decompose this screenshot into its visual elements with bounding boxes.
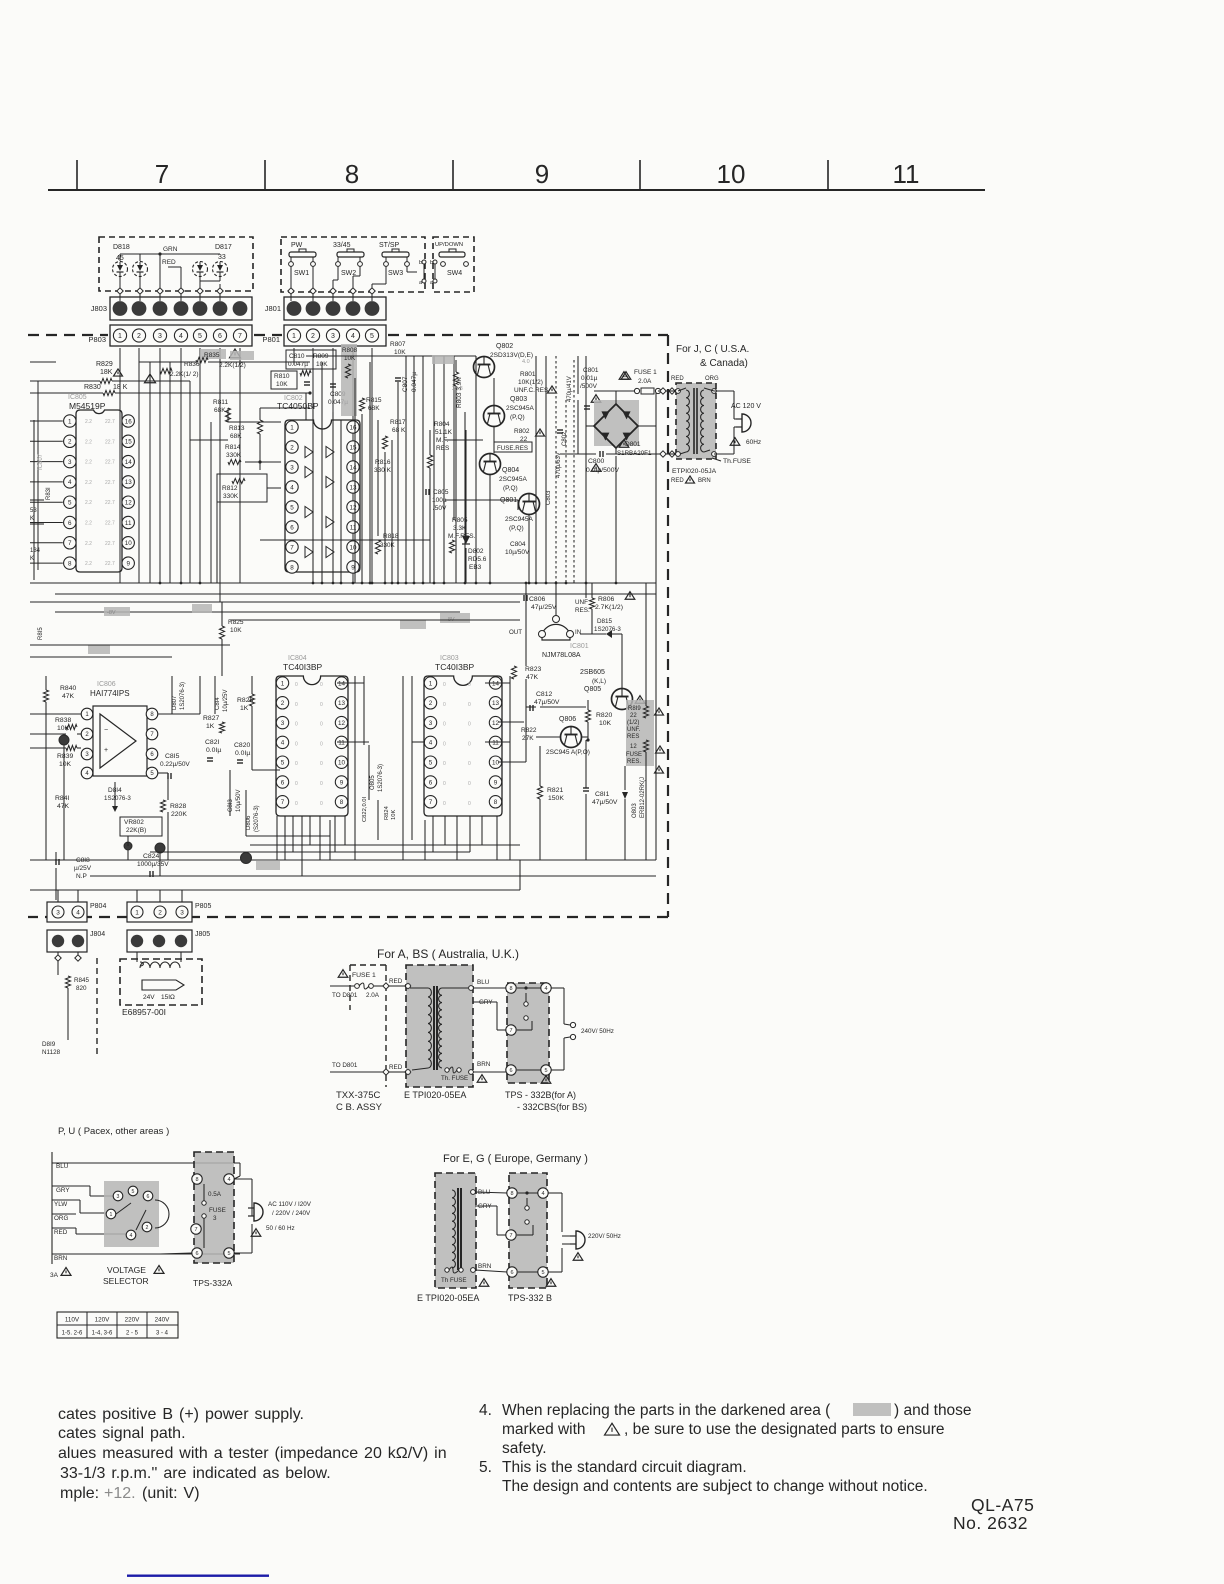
svg-text:5: 5 [544, 1068, 547, 1074]
svg-text:12: 12 [630, 744, 637, 750]
svg-text:0: 0 [468, 781, 471, 787]
svg-text:3 - 4: 3 - 4 [156, 1331, 169, 1337]
svg-text:8: 8 [509, 986, 512, 992]
svg-text:6: 6 [281, 779, 285, 786]
svg-text:2.0A: 2.0A [366, 992, 380, 999]
svg-text:BRN: BRN [478, 1263, 492, 1270]
svg-text:22.7: 22.7 [105, 480, 115, 486]
svg-text:12: 12 [492, 720, 500, 727]
svg-text:240V/ 50Hz: 240V/ 50Hz [581, 1028, 614, 1035]
svg-text:D806: D806 [246, 815, 252, 830]
svg-text:This is the standard circuit d: This is the standard circuit diagram. [502, 1459, 747, 1476]
svg-text:8: 8 [195, 1177, 198, 1183]
svg-text:0.047µ: 0.047µ [288, 361, 308, 368]
svg-text:TC40I3BP: TC40I3BP [283, 662, 323, 672]
svg-text:0: 0 [295, 781, 298, 787]
svg-text:R820: R820 [596, 712, 612, 719]
svg-text:10: 10 [349, 544, 357, 551]
svg-text:(P,Q): (P,Q) [510, 414, 525, 421]
svg-text:SW4: SW4 [447, 270, 462, 277]
svg-text:RED: RED [671, 376, 684, 382]
svg-text:J801: J801 [265, 304, 281, 313]
svg-text:9: 9 [494, 779, 498, 786]
svg-text:ST/SP: ST/SP [379, 242, 400, 249]
svg-text:0: 0 [443, 702, 446, 708]
svg-text:HAI774IPS: HAI774IPS [90, 689, 130, 698]
svg-text:P801: P801 [262, 335, 280, 344]
svg-text:0: 0 [320, 781, 323, 787]
svg-text:220V: 220V [125, 1317, 141, 1324]
svg-text:0: 0 [468, 761, 471, 767]
svg-text:1000µ/35V: 1000µ/35V [137, 861, 169, 868]
svg-text:R813: R813 [229, 425, 245, 432]
svg-text:BLU: BLU [56, 1163, 69, 1170]
svg-text:14: 14 [125, 459, 133, 466]
svg-text:4: 4 [281, 740, 285, 747]
svg-text:4: 4 [290, 484, 294, 491]
svg-text:7: 7 [509, 1028, 512, 1034]
svg-text:1: 1 [292, 333, 296, 340]
svg-text:5: 5 [541, 1270, 544, 1276]
svg-text:BLU: BLU [477, 979, 490, 986]
svg-text:47µ/50V: 47µ/50V [534, 699, 560, 706]
svg-text:R806: R806 [598, 596, 614, 603]
svg-text:AC 110V / I20V: AC 110V / I20V [268, 1201, 312, 1208]
svg-text:1S2076-3): 1S2076-3) [378, 764, 384, 792]
svg-text:O805: O805 [370, 775, 376, 790]
svg-text:C8I5: C8I5 [165, 753, 180, 760]
svg-text:ORG: ORG [705, 376, 719, 382]
svg-text:ETPI020-05JA: ETPI020-05JA [672, 468, 717, 475]
svg-text:N.P: N.P [76, 873, 87, 880]
svg-text:2: 2 [281, 700, 285, 707]
svg-text:TO D801: TO D801 [332, 992, 358, 999]
svg-text:R824: R824 [384, 805, 390, 820]
svg-text:R811: R811 [213, 399, 228, 406]
svg-text:C B. ASSY: C B. ASSY [336, 1102, 383, 1113]
svg-text:1-4, 3-6: 1-4, 3-6 [92, 1331, 113, 1337]
svg-text:R840: R840 [60, 685, 76, 692]
svg-text:4: 4 [68, 479, 72, 486]
svg-text:11: 11 [350, 524, 357, 531]
svg-text:6: 6 [510, 1270, 513, 1276]
svg-text:10K: 10K [394, 349, 406, 356]
svg-text:Th. FUSE: Th. FUSE [441, 1075, 468, 1082]
svg-text:E TPI020-05EA: E TPI020-05EA [417, 1293, 479, 1303]
svg-text:27K: 27K [522, 735, 534, 742]
svg-text:60Hz: 60Hz [746, 439, 761, 446]
svg-text:No. 2632: No. 2632 [953, 1513, 1028, 1533]
svg-text:GRY: GRY [56, 1187, 70, 1194]
svg-text:(P,Q): (P,Q) [503, 485, 518, 492]
svg-text:SW1: SW1 [294, 270, 309, 277]
svg-text:Q804: Q804 [502, 467, 519, 474]
svg-text:b: b [419, 260, 422, 266]
svg-text:RD5.6: RD5.6 [468, 556, 487, 563]
svg-text:10: 10 [492, 759, 500, 766]
svg-text:R830: R830 [84, 384, 101, 391]
svg-text:M.F.RES.: M.F.RES. [448, 533, 476, 540]
svg-text:2.7K(1/2): 2.7K(1/2) [595, 604, 623, 611]
svg-text:D802: D802 [468, 548, 484, 555]
svg-text:C810: C810 [289, 353, 305, 360]
svg-text:3: 3 [281, 720, 285, 727]
svg-text:BRN: BRN [698, 478, 711, 484]
svg-text:J804: J804 [90, 931, 105, 938]
svg-text:33: 33 [218, 254, 226, 261]
svg-text:C822,0.0I: C822,0.0I [362, 796, 368, 822]
svg-text:2.2K(1/ 2): 2.2K(1/ 2) [170, 371, 199, 378]
svg-text:2SB605: 2SB605 [580, 669, 605, 676]
svg-text:5: 5 [281, 759, 285, 766]
svg-text:0: 0 [320, 801, 323, 807]
svg-text:33-1/3 r.p.m.'' are indicated: 33-1/3 r.p.m.'' are indicated as below. [60, 1465, 331, 1482]
svg-text:5: 5 [132, 1189, 135, 1195]
svg-text:9: 9 [340, 779, 344, 786]
svg-text:0.0Iµ/500V: 0.0Iµ/500V [586, 467, 619, 474]
svg-text:TPS-332A: TPS-332A [193, 1278, 233, 1288]
svg-text:2.2: 2.2 [85, 439, 92, 445]
svg-text:0: 0 [320, 761, 323, 767]
svg-text:0: 0 [295, 761, 298, 767]
svg-text:1S2076-3: 1S2076-3 [104, 795, 131, 802]
svg-text:R810: R810 [274, 373, 290, 380]
svg-text:The design and contents are su: The design and contents are subject to c… [502, 1478, 928, 1495]
svg-text:22.7: 22.7 [105, 439, 115, 445]
svg-text:R827: R827 [203, 715, 219, 722]
svg-text:2SC945A: 2SC945A [499, 476, 527, 483]
svg-text:4: 4 [227, 1177, 230, 1183]
svg-text:IC807: IC807 [38, 453, 44, 470]
svg-text:16: 16 [125, 418, 133, 425]
svg-text:4.0: 4.0 [522, 359, 530, 365]
svg-text:For A, BS ( Australia, U.K.): For A, BS ( Australia, U.K.) [377, 947, 519, 961]
svg-text:IC803: IC803 [440, 655, 459, 662]
svg-text:When replacing the parts in th: When replacing the parts in the darkened… [502, 1402, 831, 1419]
svg-text:240V: 240V [155, 1317, 171, 1324]
svg-text:100µ: 100µ [432, 497, 447, 504]
svg-text:J805: J805 [195, 931, 210, 938]
svg-text:C803: C803 [546, 490, 552, 505]
svg-text:11: 11 [338, 740, 345, 747]
svg-text:2.0A: 2.0A [638, 378, 652, 385]
svg-text:-8V: -8V [107, 610, 116, 616]
svg-text:22: 22 [630, 713, 637, 719]
svg-text:0: 0 [468, 741, 471, 747]
svg-text:10: 10 [125, 540, 133, 547]
svg-text:47µ/25V: 47µ/25V [531, 604, 557, 611]
svg-text:2.2: 2.2 [85, 500, 92, 506]
svg-text:K: K [30, 556, 34, 562]
svg-text:2 - 5: 2 - 5 [126, 1331, 139, 1337]
svg-text:9: 9 [535, 159, 549, 189]
svg-text:0.0Iµ: 0.0Iµ [206, 747, 221, 754]
svg-text:10µ/25V: 10µ/25V [223, 690, 229, 712]
svg-text:22.7: 22.7 [105, 561, 115, 567]
svg-text:R822: R822 [521, 727, 537, 734]
svg-text:6: 6 [68, 520, 72, 527]
svg-text:RED: RED [162, 259, 176, 266]
svg-text:22.7: 22.7 [105, 541, 115, 547]
svg-text:/50V: /50V [433, 505, 447, 512]
svg-text:C800: C800 [588, 458, 604, 465]
svg-text:EB3: EB3 [469, 564, 482, 571]
svg-text:7: 7 [194, 1227, 197, 1233]
svg-text:14: 14 [492, 680, 500, 687]
svg-text:C824: C824 [143, 853, 159, 860]
svg-text:3: 3 [117, 1194, 120, 1200]
svg-text:1: 1 [110, 1212, 113, 1218]
svg-text:R802: R802 [514, 428, 530, 435]
svg-text:UNF.C.RES: UNF.C.RES [514, 387, 549, 394]
svg-text:C820: C820 [234, 742, 250, 749]
svg-text:OUT: OUT [509, 629, 522, 636]
svg-text:C805: C805 [433, 489, 449, 496]
svg-text:Q803: Q803 [510, 396, 527, 403]
svg-text:D817: D817 [215, 244, 232, 251]
svg-text:R812: R812 [222, 485, 238, 492]
svg-text:10K: 10K [230, 627, 242, 634]
svg-text:N1128: N1128 [42, 1049, 61, 1056]
svg-text:0: 0 [295, 801, 298, 807]
svg-text:IC805: IC805 [68, 394, 87, 401]
svg-text:68K: 68K [214, 407, 226, 414]
svg-text:& Canada): & Canada) [700, 358, 748, 369]
svg-text:3: 3 [68, 459, 72, 466]
svg-text:cates positive B (+) power sup: cates positive B (+) power supply. [58, 1406, 304, 1423]
svg-text:8: 8 [68, 560, 72, 567]
svg-text:mple:: mple: [60, 1485, 99, 1502]
svg-text:RES.: RES. [575, 607, 590, 614]
svg-text:R807: R807 [390, 341, 406, 348]
svg-text:4: 4 [179, 333, 183, 340]
svg-text:10: 10 [338, 759, 346, 766]
svg-text:3: 3 [290, 464, 294, 471]
svg-text:7: 7 [155, 159, 169, 189]
svg-text:4.: 4. [479, 1402, 492, 1419]
svg-text:−: − [104, 727, 108, 734]
svg-text:R816: R816 [375, 459, 391, 466]
svg-text:D801: D801 [625, 441, 641, 448]
svg-text:VOLTAGE: VOLTAGE [107, 1265, 146, 1275]
svg-text:22.7: 22.7 [105, 460, 115, 466]
svg-text:D807: D807 [172, 695, 178, 710]
svg-text:3: 3 [56, 909, 60, 916]
svg-text:R84I: R84I [55, 795, 69, 802]
svg-text:1: 1 [429, 680, 433, 687]
svg-text:RES.: RES. [627, 759, 641, 765]
svg-text:O803: O803 [632, 803, 638, 818]
svg-text:R83I: R83I [46, 487, 52, 500]
svg-text:Th.FUSE: Th.FUSE [723, 458, 751, 465]
svg-text:1S2076-3): 1S2076-3) [180, 682, 186, 710]
svg-text:6: 6 [218, 333, 222, 340]
svg-text:TPS - 332B(for A): TPS - 332B(for A) [505, 1090, 576, 1100]
svg-text:11: 11 [492, 740, 499, 747]
svg-text:R821: R821 [547, 787, 563, 794]
svg-text:0.22µ/50V: 0.22µ/50V [160, 761, 190, 768]
svg-text:51.1K: 51.1K [435, 429, 453, 436]
svg-text:2.2: 2.2 [85, 521, 92, 527]
svg-text:24.8: 24.8 [452, 386, 463, 392]
svg-text:0: 0 [295, 741, 298, 747]
svg-text:470µ/41V: 470µ/41V [567, 376, 573, 402]
svg-text:2SC945 A(P,O): 2SC945 A(P,O) [546, 749, 590, 756]
svg-text:134: 134 [30, 548, 41, 554]
svg-text:1: 1 [68, 418, 72, 425]
svg-text:TO D801: TO D801 [332, 1062, 358, 1069]
svg-text:0: 0 [320, 741, 323, 747]
svg-text:330 K: 330 K [374, 467, 392, 474]
svg-text:ORG: ORG [54, 1215, 68, 1222]
svg-text:47K: 47K [526, 674, 539, 681]
svg-text:0: 0 [443, 781, 446, 787]
svg-text:QL-A75: QL-A75 [971, 1495, 1034, 1515]
svg-text:12: 12 [338, 720, 346, 727]
svg-text:R814: R814 [225, 444, 241, 451]
svg-text:R815: R815 [366, 397, 382, 404]
svg-text:FUSE 1: FUSE 1 [352, 972, 376, 979]
svg-text:P, U ( Pacex, other areas ): P, U ( Pacex, other areas ) [58, 1126, 169, 1137]
svg-text:R838: R838 [55, 717, 71, 724]
svg-text:13: 13 [492, 700, 500, 707]
svg-text:IC806: IC806 [97, 681, 116, 688]
svg-text:FUSE: FUSE [209, 1207, 226, 1214]
svg-text:1: 1 [281, 680, 285, 687]
svg-text:ERB12-02RK(J: ERB12-02RK(J [640, 777, 646, 818]
svg-text:7: 7 [281, 799, 285, 806]
svg-text:1S2076-3: 1S2076-3 [594, 626, 621, 633]
svg-text:(S2076-3): (S2076-3) [254, 805, 260, 832]
svg-text:P804: P804 [90, 903, 106, 910]
svg-text:J803: J803 [91, 304, 107, 313]
svg-text:8: 8 [290, 564, 294, 571]
svg-text:/500V: /500V [580, 383, 598, 390]
svg-text:0: 0 [443, 801, 446, 807]
svg-text:4: 4 [130, 1233, 133, 1239]
svg-text:10K: 10K [276, 381, 288, 388]
svg-text:8: 8 [510, 1191, 513, 1197]
svg-text:2: 2 [158, 909, 162, 916]
svg-text:1K: 1K [240, 705, 249, 712]
svg-text:3A: 3A [50, 1272, 59, 1279]
svg-text:SELECTOR: SELECTOR [103, 1276, 149, 1286]
svg-text:1: 1 [290, 424, 294, 431]
svg-text:Q802: Q802 [496, 343, 513, 350]
svg-text:/ 220V / 240V: / 220V / 240V [272, 1210, 311, 1217]
svg-text:4: 4 [544, 986, 547, 992]
svg-text:47µ/50V: 47µ/50V [592, 799, 618, 806]
svg-text:7: 7 [509, 1233, 512, 1239]
svg-text:10K: 10K [599, 720, 612, 727]
svg-text:2: 2 [311, 333, 315, 340]
svg-text:10: 10 [717, 159, 746, 189]
svg-text:C8I3: C8I3 [228, 799, 234, 812]
svg-text:0: 0 [443, 722, 446, 728]
svg-text:2: 2 [290, 444, 294, 451]
svg-text:6: 6 [509, 1068, 512, 1074]
svg-text:0: 0 [320, 722, 323, 728]
svg-text:9: 9 [126, 560, 130, 567]
svg-text:3: 3 [158, 333, 162, 340]
svg-text:0: 0 [320, 702, 323, 708]
svg-text:RES: RES [627, 734, 639, 740]
svg-text:R845: R845 [74, 977, 90, 984]
svg-text:FUSE 1: FUSE 1 [634, 369, 657, 376]
svg-text:RES: RES [436, 445, 450, 452]
svg-text:470µ/63V: 470µ/63V [556, 452, 562, 478]
svg-text:C812: C812 [536, 691, 552, 698]
svg-text:R804: R804 [434, 421, 450, 428]
svg-text:SW3: SW3 [388, 270, 403, 277]
svg-text:5: 5 [429, 759, 433, 766]
svg-text:220V/ 50Hz: 220V/ 50Hz [588, 1233, 621, 1240]
svg-text:Th FUSE: Th FUSE [441, 1277, 466, 1284]
svg-text:3: 3 [213, 1215, 217, 1222]
svg-text:0.01µ: 0.01µ [581, 375, 598, 382]
svg-text:R829: R829 [96, 361, 113, 368]
svg-text:R828: R828 [170, 803, 186, 810]
svg-text:18 K: 18 K [113, 384, 128, 391]
svg-text:+12.: +12. [104, 1485, 136, 1502]
svg-text:K: K [30, 516, 34, 522]
svg-text:0: 0 [468, 722, 471, 728]
svg-text:- 332CBS(for BS): - 332CBS(for BS) [517, 1102, 587, 1112]
svg-text:E68957-00I: E68957-00I [122, 1007, 166, 1017]
svg-text:2.2: 2.2 [85, 460, 92, 466]
svg-text:0: 0 [443, 741, 446, 747]
svg-text:2.2: 2.2 [85, 419, 92, 425]
svg-text:0: 0 [468, 801, 471, 807]
svg-text:8: 8 [494, 799, 498, 806]
svg-text:2: 2 [137, 333, 141, 340]
svg-text:AC 120 V: AC 120 V [731, 403, 761, 410]
svg-text:7: 7 [238, 333, 242, 340]
svg-text:22K(B): 22K(B) [126, 827, 146, 834]
svg-text:12: 12 [349, 504, 357, 511]
svg-text:11: 11 [125, 520, 132, 527]
svg-text:BRN: BRN [54, 1255, 68, 1262]
svg-text:47K: 47K [57, 803, 70, 810]
svg-text:5.: 5. [479, 1459, 492, 1476]
svg-text:0: 0 [443, 761, 446, 767]
svg-text:5: 5 [68, 499, 72, 506]
svg-text:5: 5 [290, 504, 294, 511]
svg-text:2SC945A: 2SC945A [506, 405, 534, 412]
svg-text:6: 6 [147, 1194, 150, 1200]
svg-text:R823: R823 [525, 666, 541, 673]
svg-text:13: 13 [349, 484, 357, 491]
svg-text:22.7: 22.7 [105, 419, 115, 425]
svg-text:0: 0 [468, 682, 471, 688]
svg-text:3: 3 [180, 909, 184, 916]
svg-text:10µ/50V: 10µ/50V [236, 790, 242, 812]
svg-text:0.5A: 0.5A [208, 1191, 222, 1198]
svg-text:12: 12 [125, 499, 133, 506]
svg-text:P803: P803 [88, 335, 106, 344]
svg-text:C82I: C82I [205, 739, 219, 746]
svg-text:TPS-332 B: TPS-332 B [508, 1293, 552, 1303]
svg-text:(K,L): (K,L) [592, 678, 606, 685]
svg-text:R808: R808 [342, 347, 358, 354]
svg-text:UP/DOWN: UP/DOWN [435, 242, 463, 248]
svg-text:(1/2): (1/2) [627, 720, 639, 726]
svg-text:2.2: 2.2 [85, 561, 92, 567]
svg-text:PW: PW [291, 242, 303, 249]
svg-text:150K: 150K [548, 795, 564, 802]
svg-text:UNF.: UNF. [627, 727, 641, 733]
svg-text:0: 0 [295, 682, 298, 688]
